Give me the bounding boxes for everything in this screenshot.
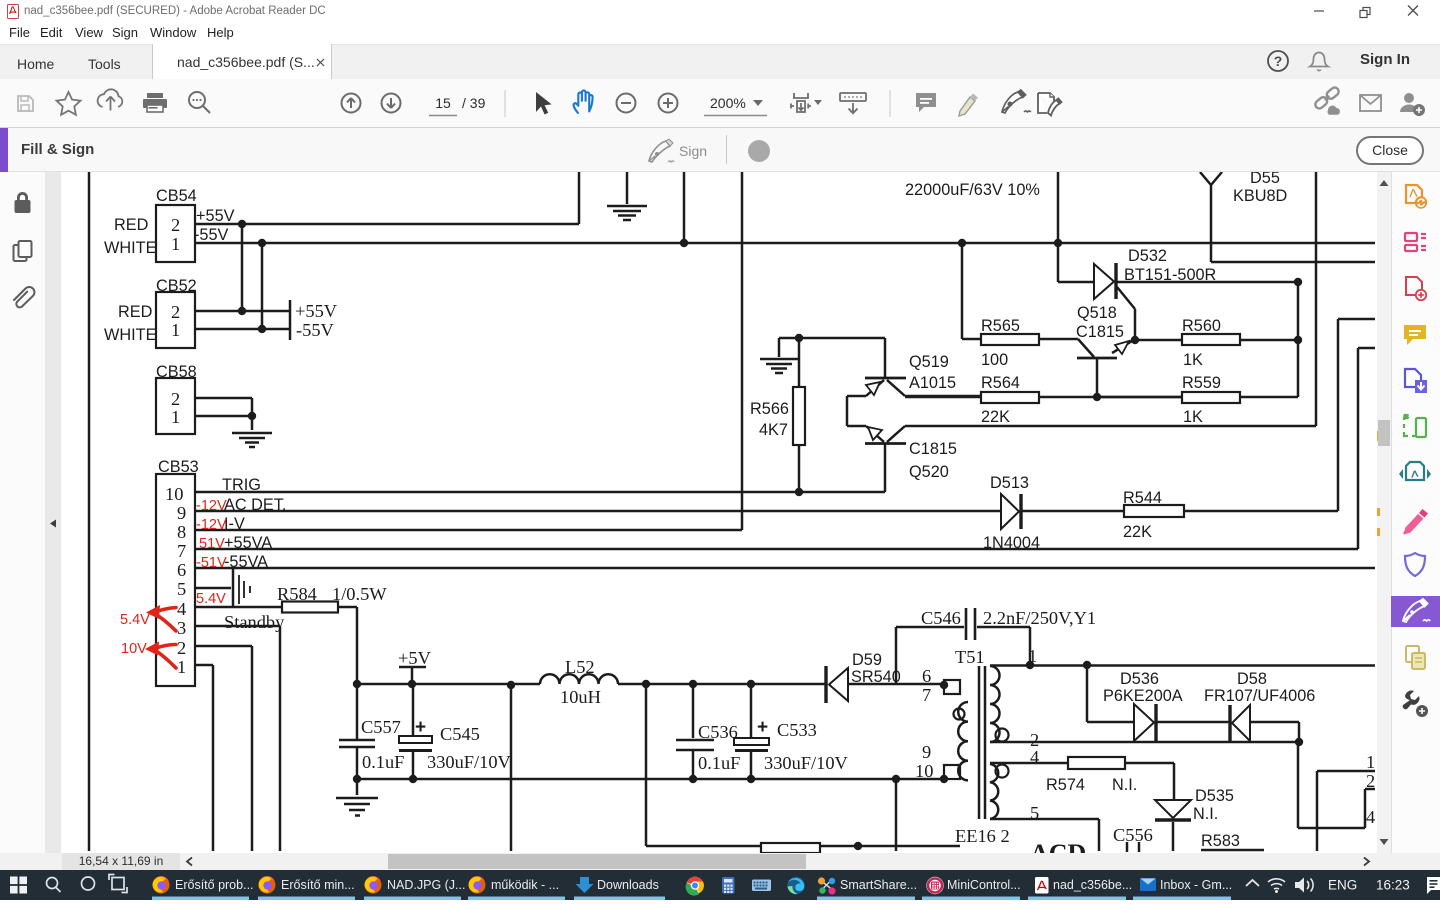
svg-text:22000uF/63V 10%: 22000uF/63V 10%: [905, 181, 1040, 199]
svg-text:C533: C533: [777, 720, 817, 740]
svg-text:15: 15: [435, 95, 451, 111]
svg-text:R560: R560: [1182, 317, 1221, 335]
svg-text:22K: 22K: [981, 408, 1010, 426]
svg-text:TRIG: TRIG: [222, 476, 261, 494]
svg-text:1: 1: [1366, 752, 1375, 772]
svg-text:Q518: Q518: [1077, 304, 1117, 322]
svg-text:CB54: CB54: [156, 187, 197, 205]
svg-text:R559: R559: [1182, 374, 1221, 392]
svg-text:4: 4: [1030, 747, 1039, 767]
svg-text:D535: D535: [1195, 787, 1234, 805]
svg-text:T51: T51: [955, 647, 985, 667]
svg-text:200%: 200%: [710, 95, 746, 111]
svg-text:+55VA: +55VA: [224, 534, 272, 552]
svg-text:16:23: 16:23: [1376, 878, 1410, 893]
svg-text:R565: R565: [981, 317, 1020, 335]
svg-text:Erősítő min...: Erősítő min...: [281, 878, 355, 892]
svg-text:R544: R544: [1123, 489, 1162, 507]
svg-text:Downloads: Downloads: [597, 878, 659, 892]
svg-text:R583: R583: [1201, 832, 1240, 850]
svg-text:2: 2: [171, 302, 180, 322]
svg-text:-55VA: -55VA: [224, 553, 268, 571]
svg-text:I-V: I-V: [224, 515, 245, 533]
svg-text:BT151-500R: BT151-500R: [1124, 266, 1216, 284]
svg-text:C1815: C1815: [909, 440, 957, 458]
svg-text:FR107/UF4006: FR107/UF4006: [1204, 687, 1315, 705]
svg-text:+55V: +55V: [295, 301, 338, 321]
svg-text:L52: L52: [565, 657, 595, 677]
svg-text:5: 5: [177, 579, 186, 599]
svg-text:P6KE200A: P6KE200A: [1103, 687, 1183, 705]
svg-text:N.I.: N.I.: [1193, 805, 1218, 823]
svg-text:5: 5: [1030, 803, 1039, 823]
svg-text:D59: D59: [852, 651, 882, 669]
svg-text:1K: 1K: [1183, 408, 1203, 426]
svg-text:3: 3: [177, 618, 186, 638]
svg-text:CB52: CB52: [156, 277, 197, 295]
svg-text:Standby: Standby: [224, 612, 285, 632]
svg-text:5.4V: 5.4V: [120, 612, 150, 628]
svg-text:C536: C536: [698, 722, 738, 742]
svg-text:2: 2: [1366, 771, 1375, 791]
svg-text:1: 1: [171, 234, 180, 254]
svg-text:WHITE: WHITE: [104, 326, 157, 344]
svg-text:CB58: CB58: [156, 363, 197, 381]
svg-text:1N4004: 1N4004: [983, 534, 1040, 552]
svg-text:10: 10: [915, 761, 933, 781]
svg-text:+: +: [415, 717, 426, 738]
svg-text:8: 8: [177, 522, 186, 542]
svg-text:2: 2: [177, 638, 186, 658]
svg-text:D58: D58: [1237, 670, 1267, 688]
svg-text:D536: D536: [1120, 670, 1159, 688]
svg-text:-12V: -12V: [196, 517, 227, 533]
svg-text:10: 10: [165, 484, 183, 504]
svg-text:WHITE: WHITE: [104, 239, 157, 257]
svg-text:10V: 10V: [121, 641, 147, 657]
svg-text:RED: RED: [118, 303, 152, 321]
svg-text:C1815: C1815: [1076, 323, 1124, 341]
svg-text:330uF/10V: 330uF/10V: [427, 752, 512, 772]
svg-text:1/0.5W: 1/0.5W: [332, 584, 387, 604]
svg-text:9: 9: [922, 742, 931, 762]
svg-text:Q519: Q519: [909, 353, 949, 371]
svg-text:+: +: [757, 717, 768, 738]
svg-text:2: 2: [171, 215, 180, 235]
svg-text:D532: D532: [1128, 247, 1167, 265]
svg-text:6: 6: [922, 666, 931, 686]
svg-text:KBU8D: KBU8D: [1233, 187, 1287, 205]
svg-text:1: 1: [1028, 646, 1037, 666]
svg-text:C556: C556: [1113, 825, 1153, 845]
svg-text:-51V: -51V: [196, 555, 227, 571]
svg-text:22K: 22K: [1123, 523, 1152, 541]
svg-text:SR540: SR540: [851, 668, 901, 686]
svg-text:330uF/10V: 330uF/10V: [764, 753, 849, 773]
svg-text:1: 1: [177, 657, 186, 677]
svg-text:D513: D513: [990, 474, 1029, 492]
svg-text:4K7: 4K7: [759, 421, 788, 439]
svg-text:1: 1: [171, 320, 180, 340]
svg-text:5.4V: 5.4V: [196, 591, 226, 607]
svg-text:2.2nF/250V,Y1: 2.2nF/250V,Y1: [983, 608, 1096, 628]
svg-text:AC DET.: AC DET.: [224, 496, 286, 514]
svg-text:Inbox - Gm...: Inbox - Gm...: [1160, 878, 1232, 892]
svg-text:-55V: -55V: [194, 226, 229, 244]
svg-text:1K: 1K: [1183, 351, 1203, 369]
svg-text:51V: 51V: [199, 536, 225, 552]
svg-text:CB53: CB53: [158, 458, 199, 476]
svg-text:4: 4: [1366, 807, 1375, 827]
svg-text:C545: C545: [440, 724, 480, 744]
svg-text:R574: R574: [1046, 776, 1085, 794]
svg-text:A1015: A1015: [909, 374, 956, 392]
svg-text:9: 9: [177, 503, 186, 523]
svg-text:+5V: +5V: [398, 648, 432, 668]
svg-text:EE16 2: EE16 2: [955, 826, 1010, 846]
svg-text:ENG: ENG: [1328, 878, 1357, 893]
svg-text:SmartShare...: SmartShare...: [840, 878, 917, 892]
svg-text:R564: R564: [981, 374, 1020, 392]
svg-text:7: 7: [177, 541, 186, 561]
svg-text:4: 4: [177, 599, 186, 619]
svg-text:6: 6: [177, 560, 186, 580]
svg-text:NAD.JPG (J...: NAD.JPG (J...: [387, 878, 465, 892]
svg-text:C546: C546: [921, 608, 961, 628]
svg-text:100: 100: [981, 351, 1008, 369]
svg-text:R584: R584: [277, 584, 317, 604]
svg-text:-12V: -12V: [196, 498, 227, 514]
svg-text:R566: R566: [750, 400, 789, 418]
svg-text:2: 2: [171, 389, 180, 409]
svg-text:MiniControl...: MiniControl...: [947, 878, 1021, 892]
svg-text:1: 1: [171, 407, 180, 427]
svg-text:nad_c356be...: nad_c356be...: [1053, 878, 1132, 892]
svg-text:Q520: Q520: [909, 463, 949, 481]
svg-text:0.1uF: 0.1uF: [362, 752, 404, 772]
svg-text:0.1uF: 0.1uF: [698, 753, 740, 773]
svg-text:+55V: +55V: [196, 207, 235, 225]
svg-text:N.I.: N.I.: [1112, 776, 1137, 794]
svg-text:10uH: 10uH: [560, 687, 601, 707]
svg-text:működik - ...: működik - ...: [491, 878, 559, 892]
svg-text:C557: C557: [361, 717, 401, 737]
svg-text:RED: RED: [114, 216, 148, 234]
svg-text:/ 39: / 39: [462, 95, 486, 111]
svg-text:?: ?: [1274, 53, 1283, 69]
svg-text:Erősítő prob...: Erősítő prob...: [175, 878, 254, 892]
svg-text:-55V: -55V: [296, 320, 335, 340]
svg-text:D55: D55: [1250, 172, 1280, 187]
svg-text:7: 7: [922, 685, 931, 705]
svg-text:ACD: ACD: [1030, 839, 1086, 853]
